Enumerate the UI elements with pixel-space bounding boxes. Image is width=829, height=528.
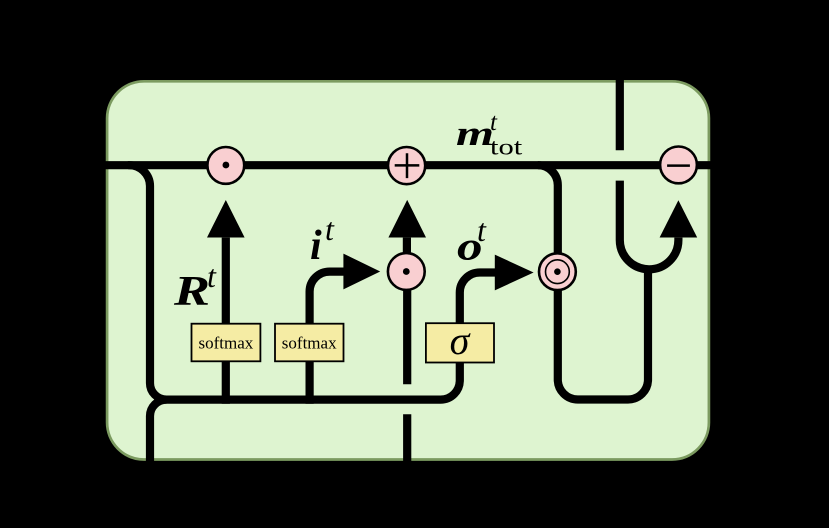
wire: stem from product operator up to plus [403, 238, 411, 253]
arrowhead right into product operator [343, 254, 380, 290]
wire: gating output down, U-turn right, up to fork under minus [558, 268, 648, 400]
wire: branch from memory line down to gating operator [538, 165, 558, 262]
svg-text:tot: tot [490, 135, 523, 160]
box: softmax (i gate) [275, 324, 344, 362]
cell body (rounded rectangle) [107, 81, 709, 459]
operator: output gating (circled dot) [539, 253, 576, 290]
label: i^t [310, 211, 335, 269]
operator: elementwise product on memory line (dot) [207, 147, 244, 184]
arrowhead up into minus operator [660, 200, 698, 237]
svg-text:t: t [490, 109, 498, 136]
arrowhead up into dot operator [207, 200, 245, 238]
box: sigma (o gate) [426, 318, 494, 363]
svg-text:i: i [310, 223, 322, 269]
wire: top entry line (above gap) [616, 0, 624, 150]
label: o^t [457, 212, 487, 269]
wire: i column (bus up through softmax2, curve right toward product) [310, 272, 345, 404]
svg-text:softmax: softmax [199, 334, 254, 353]
wire: R column (bus up through softmax to dot-product arrow) [222, 238, 230, 404]
label: m_tot^t [456, 109, 523, 160]
wire: sigma output curve right toward gating product [460, 273, 496, 327]
operator: product of i and key (dot) [388, 253, 425, 290]
arrowhead right into gating operator [495, 255, 534, 291]
operator: subtraction on memory line (minus) [660, 147, 697, 184]
wire: below product operator down (upper part before hop gap) [403, 290, 411, 384]
svg-text:softmax: softmax [282, 334, 337, 353]
svg-text:R: R [173, 269, 210, 315]
box: softmax (R gate) [192, 324, 261, 362]
arrowhead up into plus operator [388, 200, 426, 238]
operator: addition on memory line (plus) [388, 147, 425, 184]
wire: bottom-left exit below the cell [150, 400, 167, 466]
wire: top entry line below gap, semicircle fork up to minus arrow [620, 181, 679, 270]
label: R^t [173, 258, 217, 315]
svg-text:t: t [325, 211, 335, 247]
svg-text:σ: σ [450, 318, 471, 363]
wire: below hop gap, exits cell bottom [403, 414, 411, 466]
wire: main memory line m (horizontal) [0, 161, 829, 169]
svg-text:t: t [207, 258, 217, 294]
wire: left branch from memory line down to bottom bus and sigma box [128, 165, 460, 399]
svg-text:m: m [456, 114, 494, 153]
svg-text:t: t [477, 212, 487, 248]
